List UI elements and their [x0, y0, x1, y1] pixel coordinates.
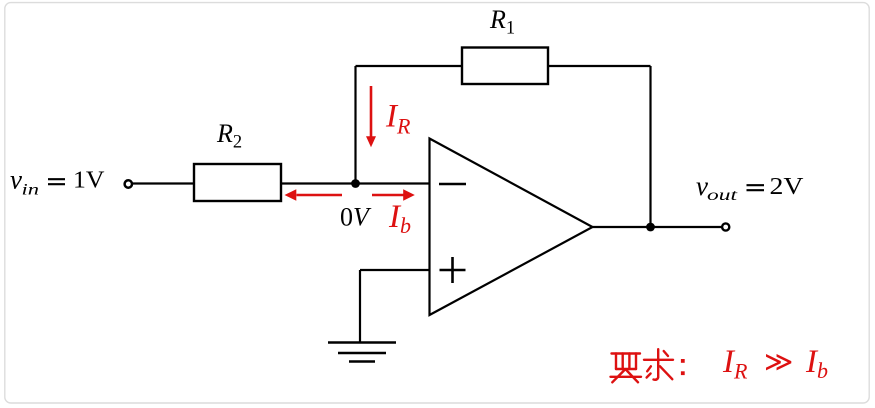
svg-text:≫: ≫: [764, 347, 793, 378]
svg-text:0V: 0V: [340, 203, 372, 232]
